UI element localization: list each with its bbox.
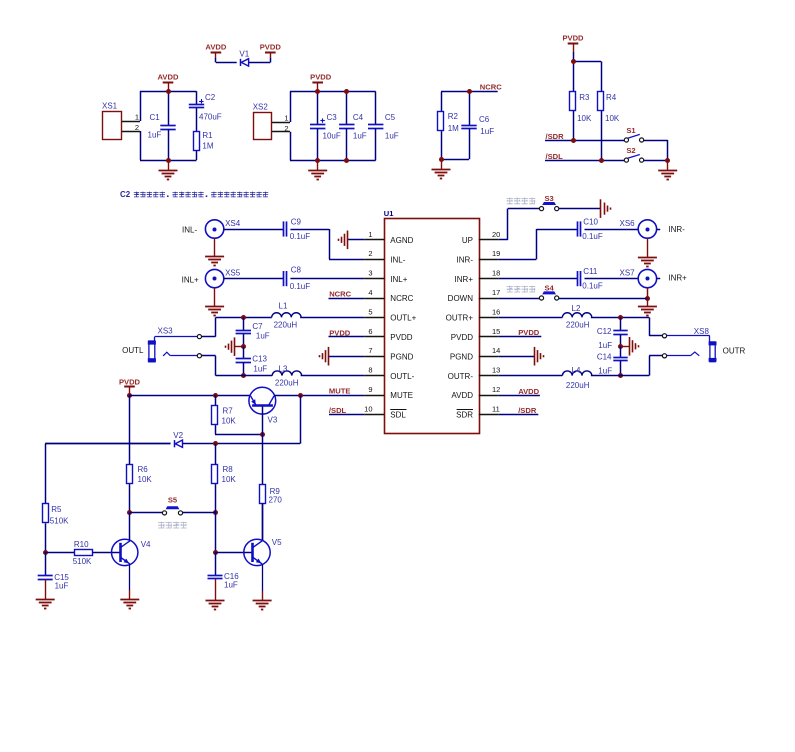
- svg-text:1uF: 1uF: [148, 131, 162, 140]
- svg-text:R10: R10: [74, 540, 89, 549]
- svg-text:U1: U1: [384, 209, 394, 218]
- svg-text:470uF: 470uF: [199, 112, 222, 121]
- svg-text:INL-: INL-: [390, 255, 405, 264]
- svg-text:R1: R1: [202, 131, 213, 140]
- svg-text:220uH: 220uH: [566, 381, 590, 390]
- svg-text:XS6: XS6: [620, 219, 636, 228]
- svg-text:C4: C4: [353, 113, 364, 122]
- svg-text:C13: C13: [252, 354, 267, 363]
- svg-text:2: 2: [135, 123, 139, 132]
- svg-text:9: 9: [368, 385, 372, 394]
- svg-text:AGND: AGND: [390, 236, 413, 245]
- svg-text:XS7: XS7: [620, 268, 636, 277]
- svg-text:S2: S2: [626, 146, 635, 155]
- svg-text:1uF: 1uF: [353, 132, 367, 141]
- svg-text:/SDR: /SDR: [546, 132, 565, 141]
- svg-text:S4: S4: [544, 284, 554, 293]
- svg-text:16: 16: [492, 307, 500, 316]
- svg-text:10K: 10K: [222, 475, 237, 484]
- svg-text:1uF: 1uF: [256, 331, 270, 340]
- svg-text:OUTL: OUTL: [122, 346, 144, 355]
- svg-text:12: 12: [492, 385, 500, 394]
- svg-text:10K: 10K: [222, 417, 237, 426]
- svg-text:UP: UP: [462, 236, 473, 245]
- svg-text:INR-: INR-: [668, 225, 685, 234]
- svg-text:/SDR: /SDR: [518, 406, 537, 415]
- svg-text:C10: C10: [583, 218, 598, 227]
- svg-text:S5: S5: [168, 496, 178, 505]
- svg-text:OUTL-: OUTL-: [390, 372, 414, 381]
- svg-text:INL+: INL+: [390, 275, 407, 284]
- svg-text:2: 2: [368, 249, 372, 258]
- svg-text:XS4: XS4: [225, 219, 241, 228]
- svg-text:S1: S1: [626, 126, 636, 135]
- svg-text:1M: 1M: [448, 124, 459, 133]
- svg-text:1uF: 1uF: [598, 366, 612, 375]
- svg-text:10uF: 10uF: [323, 132, 341, 141]
- svg-text:15: 15: [492, 327, 500, 336]
- svg-text:L1: L1: [279, 302, 288, 311]
- svg-text:OUTR-: OUTR-: [448, 372, 474, 381]
- svg-text:R4: R4: [606, 93, 617, 102]
- svg-text:1M: 1M: [202, 141, 213, 150]
- svg-text:220uH: 220uH: [275, 378, 299, 387]
- svg-text:19: 19: [492, 249, 500, 258]
- svg-text:MUTE: MUTE: [329, 387, 351, 396]
- svg-text:R5: R5: [51, 505, 62, 514]
- svg-text:PGND: PGND: [390, 352, 413, 361]
- svg-text:1uF: 1uF: [224, 580, 238, 589]
- svg-text:INR+: INR+: [668, 274, 687, 283]
- svg-text:V5: V5: [272, 538, 282, 547]
- svg-text:10K: 10K: [605, 114, 620, 123]
- svg-text:10: 10: [364, 404, 372, 413]
- svg-text:V1: V1: [239, 50, 249, 59]
- svg-text:OUTL+: OUTL+: [390, 314, 416, 323]
- svg-text:510K: 510K: [50, 516, 69, 525]
- svg-text:C5: C5: [385, 113, 396, 122]
- svg-text:13: 13: [492, 366, 500, 375]
- svg-text:PVDD: PVDD: [119, 377, 141, 386]
- svg-text:AVDD: AVDD: [158, 73, 179, 82]
- svg-text:R7: R7: [223, 407, 234, 416]
- svg-text:/SDL: /SDL: [329, 406, 347, 415]
- svg-text:7: 7: [368, 346, 372, 355]
- svg-text:C8: C8: [291, 266, 302, 275]
- svg-text:L4: L4: [572, 366, 581, 375]
- svg-text:220uH: 220uH: [274, 321, 298, 330]
- svg-text:C6: C6: [479, 115, 490, 124]
- svg-text:NCRC: NCRC: [480, 82, 502, 91]
- svg-text:PVDD: PVDD: [562, 34, 584, 43]
- svg-text:0.1uF: 0.1uF: [582, 232, 603, 241]
- svg-text:C2: C2: [205, 93, 216, 102]
- svg-text:C12: C12: [597, 327, 612, 336]
- svg-text:INR+: INR+: [455, 275, 474, 284]
- svg-text:/SDL: /SDL: [546, 152, 564, 161]
- svg-text:S3: S3: [544, 194, 553, 203]
- svg-text:510K: 510K: [73, 557, 92, 566]
- svg-text:R3: R3: [579, 93, 590, 102]
- svg-text:XS1: XS1: [102, 102, 118, 111]
- svg-text:10K: 10K: [138, 475, 153, 484]
- svg-text:NCRC: NCRC: [390, 294, 413, 303]
- svg-text:1: 1: [368, 230, 372, 239]
- svg-text:INL-: INL-: [182, 225, 197, 234]
- svg-text:14: 14: [492, 346, 500, 355]
- svg-text:XS8: XS8: [694, 327, 710, 336]
- svg-text:8: 8: [368, 366, 372, 375]
- svg-text:4: 4: [368, 288, 372, 297]
- svg-text:1uF: 1uF: [480, 127, 494, 136]
- svg-text:XS5: XS5: [225, 268, 241, 277]
- svg-text:NCRC: NCRC: [329, 290, 351, 299]
- svg-text:PVDD: PVDD: [390, 333, 412, 342]
- svg-text:V3: V3: [268, 415, 278, 424]
- svg-text:OUTR: OUTR: [723, 346, 746, 355]
- svg-text:0.1uF: 0.1uF: [290, 282, 311, 291]
- svg-text:1uF: 1uF: [385, 132, 399, 141]
- svg-text:L3: L3: [279, 365, 288, 374]
- svg-text:AVDD: AVDD: [518, 387, 539, 396]
- svg-text:OUTR+: OUTR+: [446, 314, 474, 323]
- svg-text:20: 20: [492, 230, 500, 239]
- svg-text:18: 18: [492, 269, 500, 278]
- svg-text:V4: V4: [141, 540, 151, 549]
- svg-text:1: 1: [284, 114, 288, 123]
- svg-text:R6: R6: [138, 465, 149, 474]
- svg-text:DOWN: DOWN: [448, 294, 474, 303]
- svg-text:XS3: XS3: [158, 326, 174, 335]
- svg-text:R8: R8: [223, 465, 234, 474]
- svg-text:INR-: INR-: [457, 255, 474, 264]
- svg-text:C2: C2: [120, 190, 131, 199]
- svg-text:PVDD: PVDD: [518, 328, 540, 337]
- svg-text:C14: C14: [597, 352, 612, 361]
- svg-text:1: 1: [135, 113, 139, 122]
- svg-text:C1: C1: [150, 113, 161, 122]
- svg-text:1uF: 1uF: [598, 341, 612, 350]
- svg-text:2: 2: [284, 124, 288, 133]
- svg-text:MUTE: MUTE: [390, 391, 413, 400]
- svg-text:PVDD: PVDD: [310, 73, 332, 82]
- svg-text:270: 270: [269, 495, 283, 504]
- svg-text:C3: C3: [327, 113, 338, 122]
- svg-text:220uH: 220uH: [566, 321, 590, 330]
- svg-text:5: 5: [368, 307, 372, 316]
- svg-text:3: 3: [368, 269, 372, 278]
- svg-text:C11: C11: [583, 267, 598, 276]
- svg-text:0.1uF: 0.1uF: [290, 232, 311, 241]
- svg-text:INL+: INL+: [182, 275, 199, 284]
- svg-text:C7: C7: [252, 322, 263, 331]
- svg-text:PVDD: PVDD: [451, 333, 473, 342]
- svg-text:L2: L2: [572, 304, 581, 313]
- svg-text:PGND: PGND: [450, 352, 473, 361]
- svg-text:6: 6: [368, 327, 372, 336]
- svg-text:AVDD: AVDD: [205, 43, 226, 52]
- svg-text:V2: V2: [173, 431, 183, 440]
- svg-text:1uF: 1uF: [55, 582, 69, 591]
- svg-text:SDR: SDR: [456, 411, 473, 420]
- svg-text:XS2: XS2: [253, 103, 269, 112]
- svg-text:0.1uF: 0.1uF: [582, 282, 603, 291]
- svg-text:11: 11: [492, 404, 500, 413]
- svg-text:10K: 10K: [577, 114, 592, 123]
- svg-text:PVDD: PVDD: [329, 329, 351, 338]
- svg-text:SDL: SDL: [390, 411, 406, 420]
- svg-text:AVDD: AVDD: [451, 391, 473, 400]
- svg-text:C9: C9: [291, 217, 302, 226]
- svg-text:R2: R2: [448, 112, 459, 121]
- svg-text:PVDD: PVDD: [260, 43, 282, 52]
- svg-text:17: 17: [492, 288, 500, 297]
- svg-text:1uF: 1uF: [253, 364, 267, 373]
